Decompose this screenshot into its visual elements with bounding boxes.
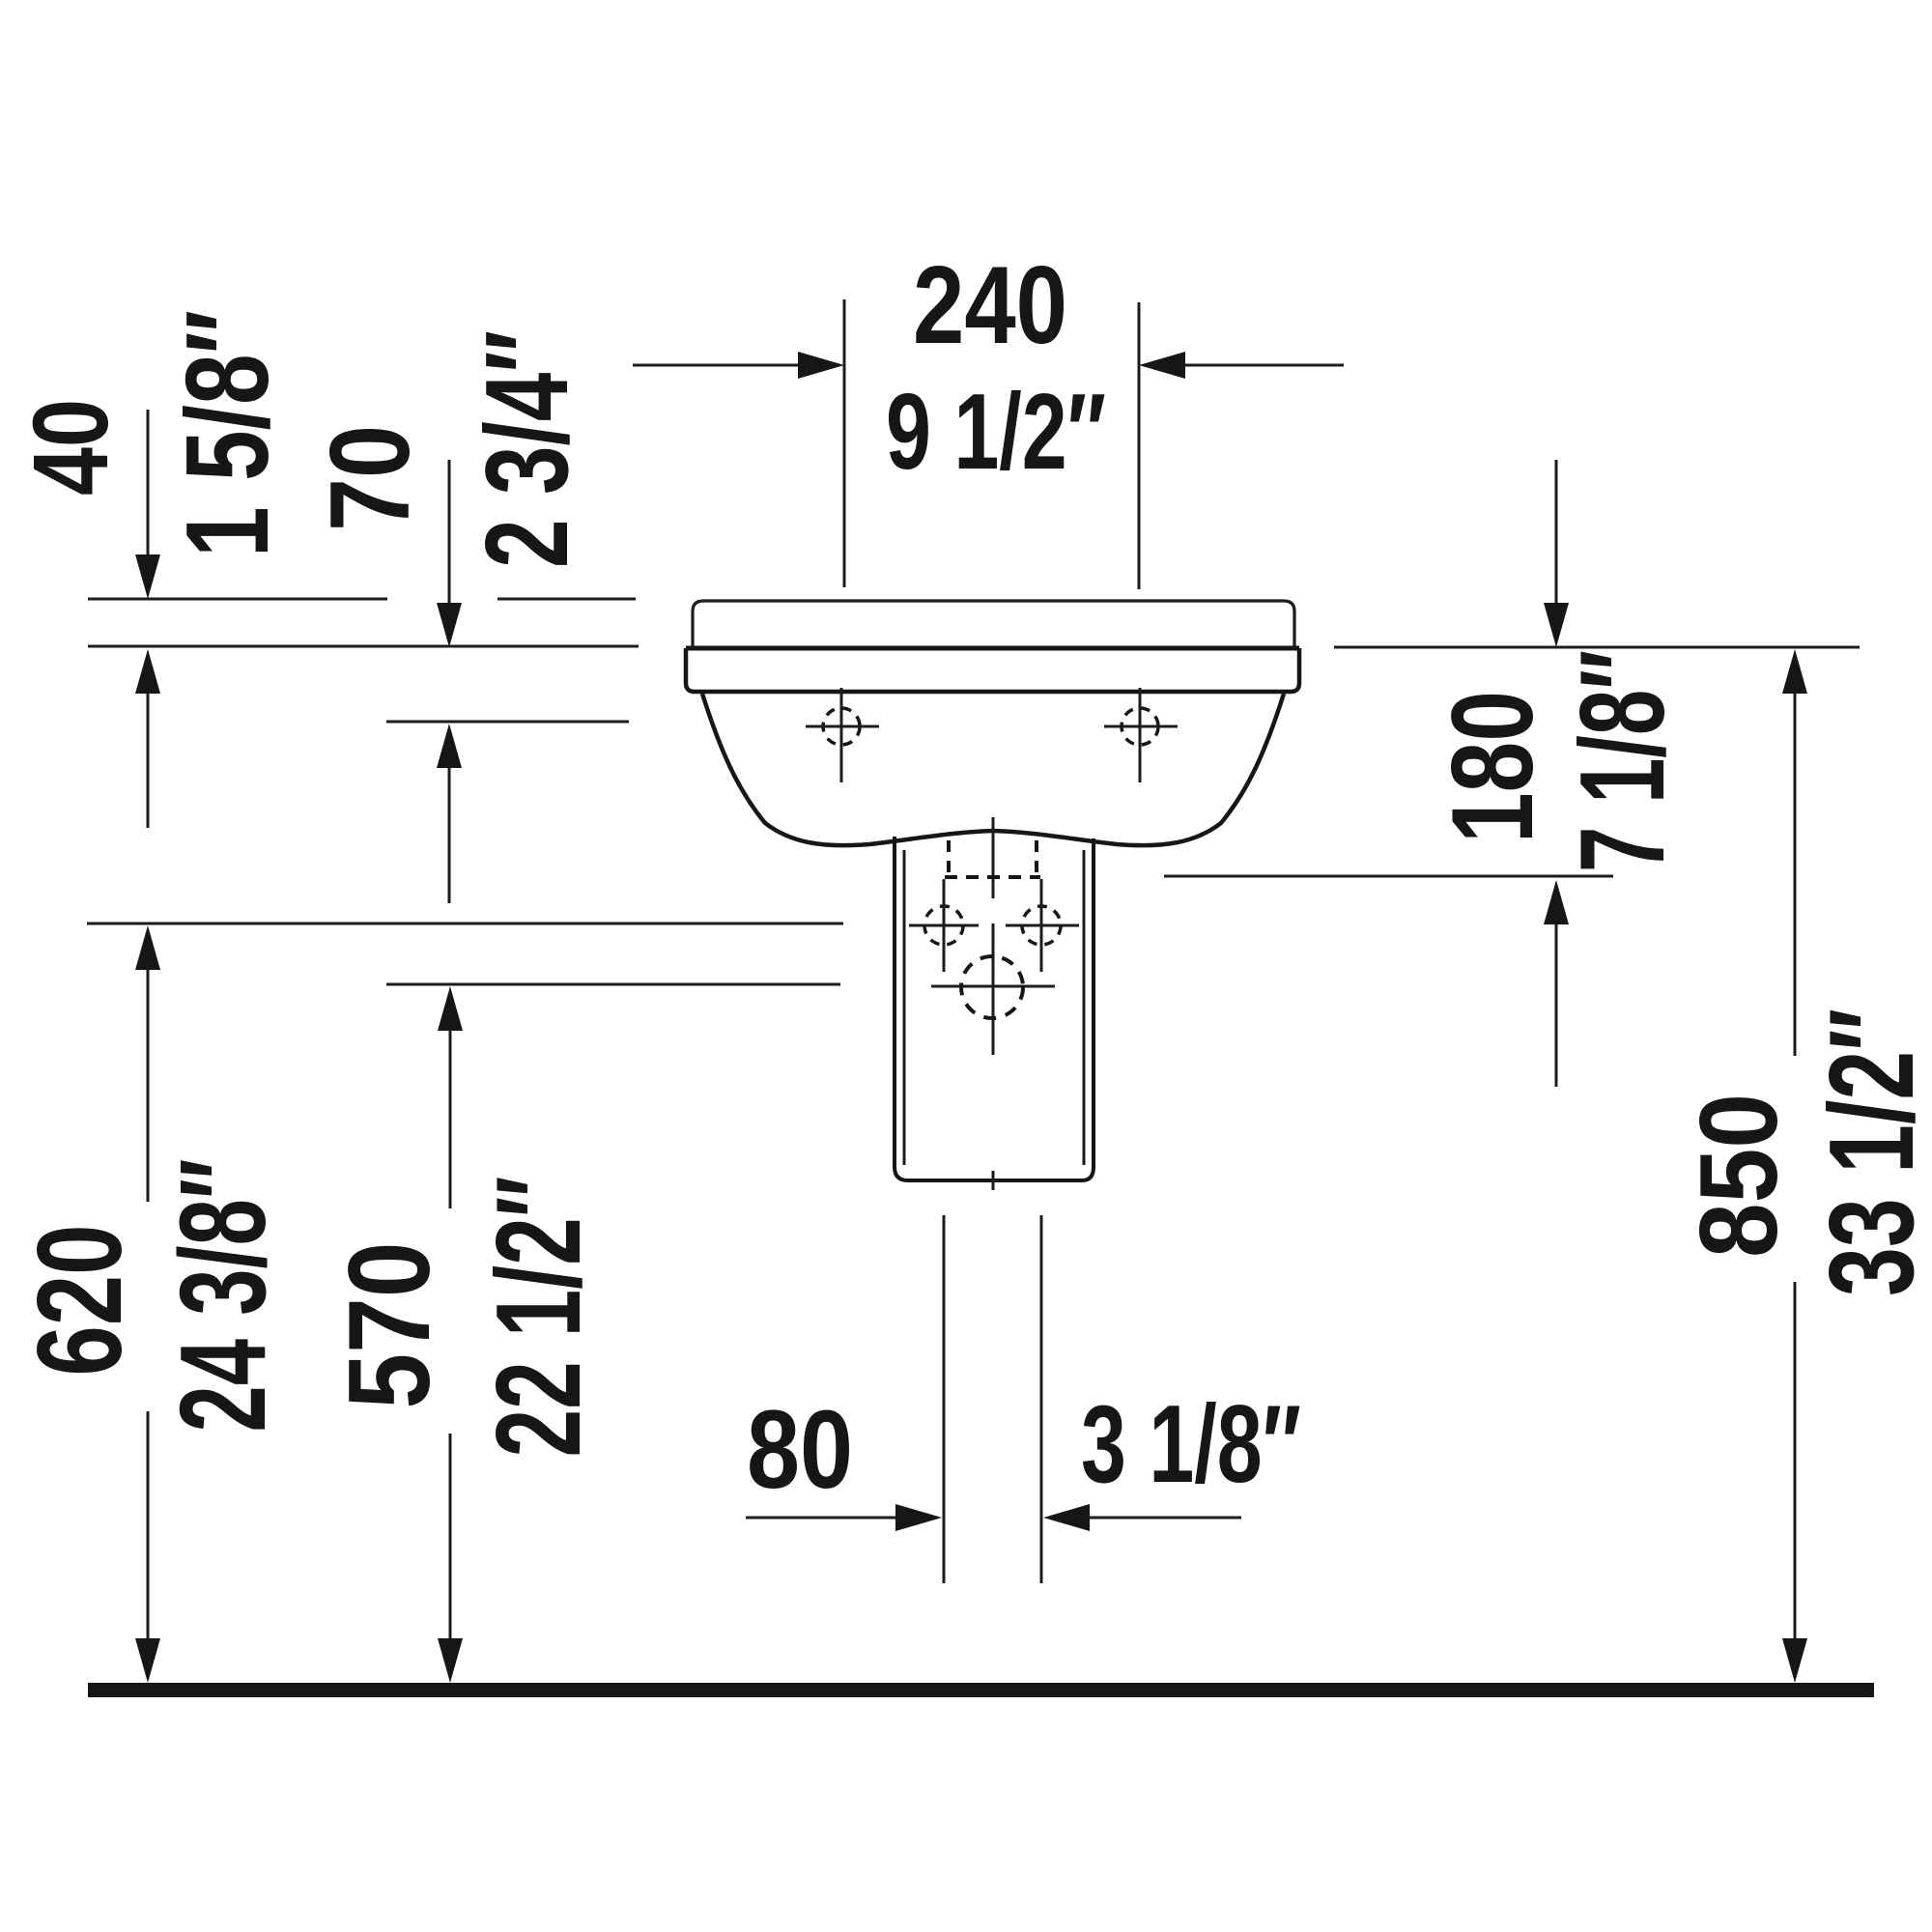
faucet hole right: crosshair vertical [1139,688,1142,782]
svg-text:22 1/2″: 22 1/2″ [472,1177,606,1458]
dim 620: line with up arrowhead at top [147,968,150,1202]
svg-text:180: 180 [1428,691,1557,843]
dim 180: upper line with down arrowhead [1555,460,1558,605]
dim 180: lower line with up arrowhead [1555,923,1558,1087]
faucet hole right: dashed circle [1122,708,1158,745]
reference line rim-top left segment 2 [497,598,636,601]
dim 850: lower part with down arrowhead at floor [1794,1282,1797,1642]
sink rim top slab outline [693,601,1294,647]
svg-text:70: 70 [306,425,433,531]
reference line rim-top left segment 1 [88,598,387,601]
svg-text:80: 80 [747,1388,853,1512]
svg-text:9 1/2″: 9 1/2″ [886,372,1106,492]
sink rim ledge top bold line [686,646,1299,651]
fixture center line lower segment [992,923,995,1055]
dim 620: line lower part with down arrowhead at floor [147,1411,150,1642]
svg-text:3 1/8″: 3 1/8″ [1081,1383,1301,1506]
svg-text:40: 40 [12,399,130,496]
supply hole right: crosshair horizontal [1006,924,1079,927]
svg-text:7 1/8″: 7 1/8″ [1556,650,1690,872]
reference line 620 level [87,923,843,925]
supply hole right: dashed circle [1022,906,1061,945]
svg-text:24 3/8″: 24 3/8″ [155,1159,291,1433]
svg-text:240: 240 [913,244,1067,367]
supply hole left: crosshair horizontal [909,924,979,927]
hidden fitting block dashed bottom horizontal [945,875,1040,879]
pedestal outer outline [895,837,1094,1180]
dim 80: left arrow [746,1517,901,1520]
supply hole left: crosshair vertical [943,879,946,972]
reference line 70 lower [386,721,629,724]
faucet hole left: crosshair vertical [840,688,843,782]
svg-text:620: 620 [14,1225,147,1377]
supply hole right: crosshair vertical [1040,879,1043,972]
svg-text:1 5/8″: 1 5/8″ [161,310,293,557]
dim 40: lower line with up arrowhead [147,692,150,828]
hidden fitting block dashed right vertical [1035,840,1038,875]
pedestal inner left line [903,850,906,1165]
pedestal inner right line [1083,850,1086,1165]
drain pipe right line [1040,1215,1043,1583]
dim 240: right extension line [1138,302,1141,589]
svg-text:850: 850 [1678,1094,1801,1258]
reference line 570 level [386,983,840,986]
fixture center line upper segment [992,817,995,898]
dim 240: left arrow [633,364,804,367]
dim 240: left extension line [843,299,846,587]
dim 570: line lower part with down arrowhead at floor [449,1434,452,1642]
dim 70: upper line with down arrowhead [448,460,451,605]
dim 40: upper line with down arrowhead [147,410,150,558]
basin body outline [702,694,1284,845]
faucet hole left: dashed circle [823,708,860,745]
drain hole crosshair horizontal [931,985,1055,988]
drain pipe left line [943,1215,946,1583]
center tick at pedestal bottom [992,1171,995,1190]
svg-text:570: 570 [325,1242,454,1409]
dim 80: right arrow [1084,1517,1241,1520]
reference line 180 lower right [1164,875,1613,878]
reference line rim-underside left [88,645,639,648]
supply hole left: dashed circle [924,906,963,945]
dim 70: lower line with up arrowhead [448,766,451,903]
dim 240: right arrow [1179,364,1344,367]
faucet hole left: crosshair horizontal [806,725,879,728]
floor line [88,1683,1874,1697]
svg-text:33 1/2″: 33 1/2″ [1805,1009,1932,1296]
reference line rim-underside right [1334,646,1860,649]
drain hole dashed circle [961,956,1023,1018]
dim 570: line with up arrowhead at top [449,1029,452,1208]
sink rim ledge band outline [686,648,1299,692]
svg-text:2 3/4″: 2 3/4″ [461,330,592,568]
dim 850: line with up arrowhead at top [1794,692,1797,1056]
faucet hole right: crosshair horizontal [1104,725,1178,728]
hidden fitting block dashed left vertical [947,840,951,875]
